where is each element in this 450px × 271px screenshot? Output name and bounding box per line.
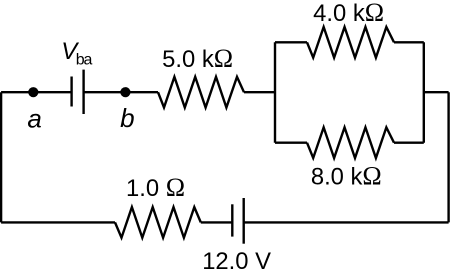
svg-text:ba: ba: [76, 52, 93, 69]
svg-text:5.0 kΩ: 5.0 kΩ: [162, 44, 233, 73]
svg-text:4.0 kΩ: 4.0 kΩ: [313, 0, 384, 27]
svg-text:8.0 kΩ: 8.0 kΩ: [311, 162, 382, 191]
svg-text:12.0 V: 12.0 V: [202, 248, 271, 271]
svg-text:b: b: [120, 103, 134, 133]
svg-text:a: a: [27, 103, 41, 133]
svg-text:1.0 Ω: 1.0 Ω: [126, 173, 185, 202]
